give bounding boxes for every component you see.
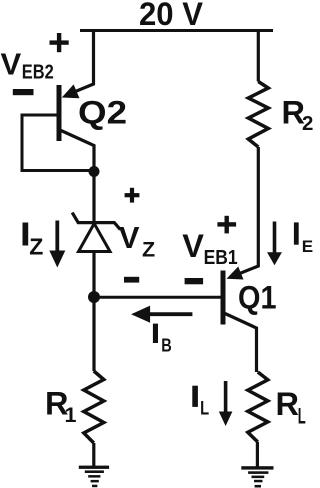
- transistor Q1: [221, 266, 257, 372]
- wire: node B to R1: [92, 297, 95, 371]
- wire: node B to Q1 base: [94, 296, 221, 299]
- svg-text:Z: Z: [29, 233, 43, 259]
- wire: node A to zener cathode: [92, 172, 95, 223]
- ground (R1): [79, 466, 109, 488]
- current arrow IL: [219, 381, 233, 426]
- svg-text:2: 2: [302, 112, 313, 135]
- current arrow IZ: [49, 221, 65, 268]
- wire: rail to Q2 emitter: [70, 29, 94, 94]
- svg-text:1: 1: [65, 403, 77, 427]
- resistor R2: [248, 82, 268, 148]
- resistor RL: [248, 372, 268, 442]
- svg-text:V: V: [1, 46, 22, 81]
- resistor R1: [84, 371, 104, 443]
- svg-text:L: L: [200, 399, 209, 420]
- supply rail wire: [80, 29, 273, 32]
- label + of VEB1: [217, 216, 236, 234]
- svg-text:R: R: [276, 386, 299, 422]
- transistor Q2: [57, 84, 95, 171]
- svg-text:EB1: EB1: [204, 247, 238, 269]
- current arrow IE: [267, 222, 282, 266]
- svg-text:20 V: 20 V: [139, 0, 203, 32]
- svg-text:B: B: [161, 335, 172, 356]
- svg-text:V: V: [182, 228, 204, 264]
- wire: zener anode to node B: [92, 252, 95, 298]
- wire: Q2 base loop to node A: [22, 115, 94, 171]
- zener diode VZ: [72, 213, 120, 252]
- wire: R1 to ground: [92, 443, 95, 466]
- wire: rail to R2: [257, 29, 260, 82]
- svg-text:EB2: EB2: [22, 62, 54, 84]
- node A junction dot: [89, 166, 100, 177]
- svg-text:E: E: [302, 237, 313, 256]
- svg-text:V: V: [119, 220, 140, 255]
- svg-text:Q2: Q2: [78, 94, 127, 130]
- current arrow IB: [131, 306, 192, 323]
- label - of VEB1: [185, 278, 204, 284]
- label IL: [192, 386, 198, 407]
- label IE: [294, 222, 299, 244]
- label + of VZ: [125, 188, 140, 203]
- label - of VEB2: [13, 89, 34, 95]
- node B junction dot: [88, 291, 100, 303]
- wire: R2 to Q1 emitter: [235, 147, 258, 275]
- label + of VEB2: [50, 33, 69, 52]
- ground (RL): [241, 466, 273, 487]
- svg-text:Q1: Q1: [238, 279, 277, 315]
- label IZ: [23, 223, 29, 246]
- svg-text:Z: Z: [142, 238, 155, 262]
- label - of VZ: [124, 277, 139, 283]
- wire: RL to ground: [256, 442, 259, 467]
- label IB: [153, 324, 158, 343]
- svg-text:L: L: [298, 404, 306, 429]
